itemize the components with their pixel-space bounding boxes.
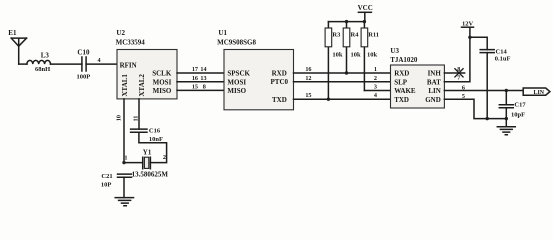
power VCC bbox=[358, 12, 371, 21]
svg-text:MOSI: MOSI bbox=[227, 78, 246, 86]
svg-text:MC33594: MC33594 bbox=[116, 38, 146, 46]
node C17 ground rail bbox=[505, 117, 508, 120]
svg-text:12: 12 bbox=[305, 75, 311, 82]
wire U1 TXD to U3 TXD bbox=[294, 98, 391, 100]
svg-text:MOSI: MOSI bbox=[153, 78, 172, 86]
svg-text:10: 10 bbox=[115, 115, 122, 121]
svg-text:17: 17 bbox=[192, 66, 198, 73]
svg-text:10k: 10k bbox=[351, 51, 362, 58]
svg-text:8: 8 bbox=[203, 84, 206, 91]
svg-text:U2: U2 bbox=[116, 29, 125, 37]
svg-text:8: 8 bbox=[457, 66, 460, 73]
svg-text:VCC: VCC bbox=[358, 4, 373, 12]
svg-text:MISO: MISO bbox=[153, 87, 172, 95]
svg-text:4: 4 bbox=[98, 57, 101, 64]
svg-text:100P: 100P bbox=[77, 74, 91, 81]
svg-text:C21: C21 bbox=[101, 173, 112, 180]
svg-text:Y1: Y1 bbox=[143, 148, 152, 156]
svg-text:0.1uF: 0.1uF bbox=[495, 56, 511, 63]
svg-text:U3: U3 bbox=[390, 47, 399, 55]
svg-text:L3: L3 bbox=[41, 52, 50, 60]
svg-text:13: 13 bbox=[200, 75, 206, 82]
svg-text:XTAL2: XTAL2 bbox=[138, 74, 146, 97]
svg-text:13.580625M: 13.580625M bbox=[132, 171, 169, 179]
svg-text:TXD: TXD bbox=[272, 96, 287, 104]
wire U1 RXD to U3 RXD bbox=[294, 72, 391, 74]
wire C10 to U2 RFIN pin 4 bbox=[86, 63, 117, 65]
resistor R4 bbox=[343, 22, 350, 73]
node bus R4 bbox=[345, 20, 348, 23]
svg-text:R11: R11 bbox=[368, 32, 379, 39]
svg-text:PTC0: PTC0 bbox=[271, 78, 289, 86]
svg-text:RXD: RXD bbox=[272, 70, 287, 78]
wire C14 to ground rail bbox=[486, 53, 488, 119]
capacitor C14 bbox=[480, 50, 494, 53]
svg-text:6: 6 bbox=[462, 84, 465, 91]
wire U3 INH no-connect bbox=[444, 72, 464, 74]
ground under C21 bbox=[115, 198, 133, 206]
svg-text:SCLK: SCLK bbox=[152, 70, 172, 78]
capacitor C10 bbox=[82, 57, 86, 71]
inductor L3 bbox=[27, 60, 51, 64]
svg-text:BAT: BAT bbox=[427, 78, 441, 86]
svg-text:MC9S08SG8: MC9S08SG8 bbox=[217, 38, 256, 46]
wire VCC bus bbox=[328, 21, 364, 23]
svg-text:5: 5 bbox=[462, 93, 465, 100]
wire to C14 bbox=[470, 37, 487, 49]
wire U2 MISO to U1 MISO bbox=[177, 89, 224, 91]
svg-text:TJA1020: TJA1020 bbox=[390, 56, 418, 64]
svg-text:R4: R4 bbox=[351, 32, 360, 39]
svg-text:15: 15 bbox=[192, 84, 198, 91]
svg-text:XTAL1: XTAL1 bbox=[121, 74, 129, 97]
svg-text:RXD: RXD bbox=[394, 70, 409, 78]
svg-text:LIN: LIN bbox=[428, 87, 440, 95]
svg-text:GND: GND bbox=[425, 96, 441, 104]
svg-text:MISO: MISO bbox=[227, 87, 246, 95]
ground right bbox=[505, 119, 507, 127]
svg-text:15: 15 bbox=[305, 92, 311, 99]
svg-text:3: 3 bbox=[374, 84, 377, 91]
svg-text:1: 1 bbox=[124, 155, 127, 162]
svg-text:E1: E1 bbox=[8, 29, 17, 37]
svg-text:2: 2 bbox=[374, 75, 377, 82]
antenna E1 bbox=[11, 38, 26, 64]
svg-text:11: 11 bbox=[133, 116, 140, 122]
svg-text:R3: R3 bbox=[332, 32, 341, 39]
IC U3 TJA1020 box bbox=[391, 65, 445, 108]
wire U3 GND down to rail bbox=[444, 99, 506, 118]
wire U2 MOSI to U1 MOSI bbox=[177, 81, 224, 83]
svg-text:SPSCK: SPSCK bbox=[227, 70, 250, 78]
svg-text:INH: INH bbox=[428, 70, 442, 78]
svg-text:RFIN: RFIN bbox=[120, 61, 137, 69]
wire U1 PTC0 to U3 SLP bbox=[294, 81, 391, 83]
node R3 on TXD wire bbox=[327, 98, 330, 101]
svg-text:1: 1 bbox=[374, 66, 377, 73]
power 12V bbox=[462, 26, 474, 28]
node C14 ground rail bbox=[486, 117, 489, 120]
svg-text:WAKE: WAKE bbox=[394, 87, 416, 95]
svg-text:12V: 12V bbox=[462, 20, 474, 27]
svg-text:16: 16 bbox=[305, 66, 311, 73]
svg-text:SLP: SLP bbox=[394, 78, 408, 86]
svg-text:16: 16 bbox=[192, 75, 198, 82]
svg-text:10pF: 10pF bbox=[511, 112, 525, 119]
wire U3 BAT to 12V bbox=[444, 27, 470, 82]
wire crystal left lead bbox=[124, 162, 143, 164]
resistor R11 bbox=[361, 22, 368, 91]
capacitor C21 bbox=[118, 174, 132, 177]
svg-text:10nF: 10nF bbox=[149, 136, 163, 143]
svg-text:10k: 10k bbox=[332, 51, 343, 58]
svg-text:TXD: TXD bbox=[394, 96, 409, 104]
node C17 on LIN wire bbox=[505, 89, 508, 92]
svg-text:7: 7 bbox=[457, 75, 460, 82]
resistor R3 bbox=[325, 22, 332, 100]
svg-text:C10: C10 bbox=[77, 48, 90, 56]
svg-text:2: 2 bbox=[163, 154, 166, 161]
svg-text:14: 14 bbox=[200, 66, 206, 73]
port LIN flag bbox=[523, 88, 550, 95]
wire antenna to L3 bbox=[19, 63, 27, 65]
no-connect X on INH bbox=[455, 69, 463, 77]
crystal Y1 bbox=[143, 157, 151, 169]
svg-text:U1: U1 bbox=[218, 29, 227, 37]
svg-text:68nH: 68nH bbox=[35, 66, 50, 73]
node 12V / C14 branch bbox=[468, 36, 471, 39]
IC U1 MC9S08SG8 box bbox=[224, 50, 294, 110]
capacitor C17 bbox=[499, 91, 513, 119]
IC U2 MC33594 box bbox=[117, 50, 177, 99]
wire U3 LIN to port bbox=[444, 90, 523, 92]
svg-text:10k: 10k bbox=[367, 51, 378, 58]
wire U2 SCLK to U1 SPSCK bbox=[177, 72, 224, 74]
svg-text:LIN: LIN bbox=[534, 90, 545, 96]
wire L3 to C10 bbox=[51, 63, 82, 65]
node crystal/XTAL1 junction bbox=[122, 161, 125, 164]
svg-text:4: 4 bbox=[374, 92, 377, 99]
svg-text:C16: C16 bbox=[149, 127, 161, 134]
wire U2 XTAL2 pin 11 down to C16 bbox=[138, 99, 140, 129]
svg-text:10P: 10P bbox=[101, 181, 112, 188]
wire R11 to U3 WAKE bbox=[364, 90, 390, 92]
capacitor C16 bbox=[131, 129, 147, 132]
node bus R11 bbox=[363, 20, 366, 23]
wire U2 XTAL1 pin 10 down to Y1/C21 bbox=[123, 99, 125, 163]
node R4 on RXD wire bbox=[345, 71, 348, 74]
wire C16 to crystal right side bbox=[139, 132, 167, 162]
wire C21 to ground bbox=[123, 177, 125, 197]
svg-text:C17: C17 bbox=[514, 102, 526, 109]
